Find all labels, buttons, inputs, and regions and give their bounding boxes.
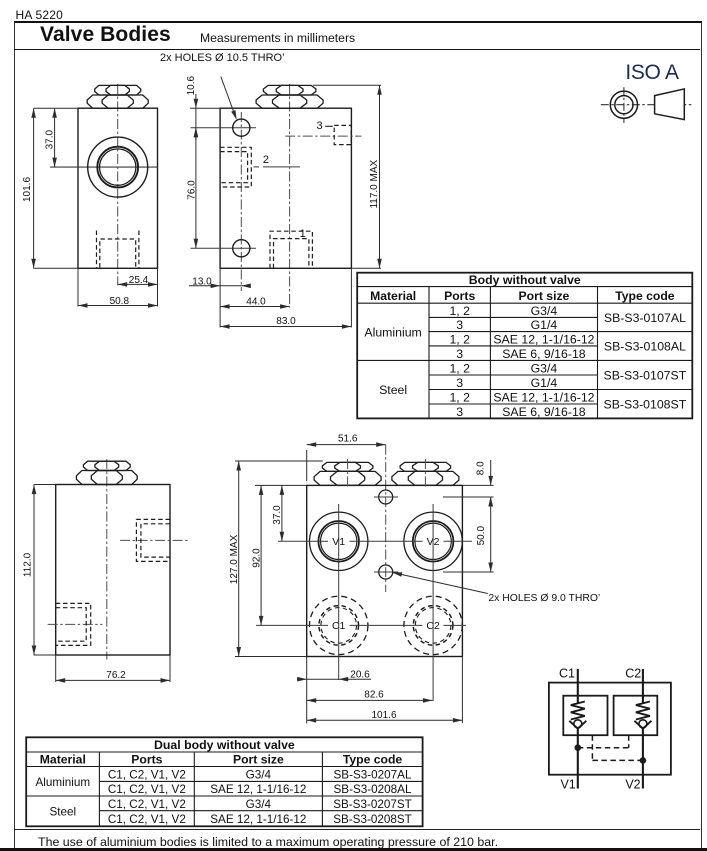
- svg-text:51.6: 51.6: [338, 434, 358, 445]
- svg-text:Body without valve: Body without valve: [469, 273, 581, 287]
- svg-text:25.4: 25.4: [129, 275, 149, 286]
- svg-text:82.6: 82.6: [364, 690, 384, 701]
- svg-text:SB-S3-0207ST: SB-S3-0207ST: [333, 798, 412, 811]
- svg-text:SB-S3-0207AL: SB-S3-0207AL: [334, 768, 412, 781]
- svg-text:1, 2: 1, 2: [449, 361, 470, 375]
- svg-text:10.6: 10.6: [186, 76, 197, 96]
- svg-text:Type code: Type code: [615, 289, 675, 303]
- svg-text:C1: C1: [559, 666, 575, 680]
- svg-text:2: 2: [263, 154, 269, 166]
- svg-text:SB-S3-0107AL: SB-S3-0107AL: [604, 311, 686, 325]
- svg-text:20.6: 20.6: [350, 669, 370, 680]
- svg-text:Dual body without valve: Dual body without valve: [154, 738, 295, 752]
- svg-text:3: 3: [456, 347, 463, 361]
- svg-text:SAE 6, 9/16-18: SAE 6, 9/16-18: [502, 405, 586, 419]
- svg-text:C1, C2, V1, V2: C1, C2, V1, V2: [108, 798, 186, 811]
- svg-text:SAE 12, 1-1/16-12: SAE 12, 1-1/16-12: [210, 813, 306, 826]
- svg-text:Ports: Ports: [444, 289, 475, 303]
- svg-text:C1, C2, V1, V2: C1, C2, V1, V2: [108, 783, 186, 796]
- svg-text:C2: C2: [625, 666, 641, 680]
- svg-text:ISO A: ISO A: [625, 61, 679, 84]
- svg-text:Port size: Port size: [519, 289, 570, 303]
- svg-text:1, 2: 1, 2: [449, 390, 470, 404]
- svg-text:1: 1: [300, 228, 306, 240]
- svg-text:Type code: Type code: [343, 752, 403, 766]
- svg-text:3: 3: [456, 318, 463, 332]
- svg-text:C1, C2, V1, V2: C1, C2, V1, V2: [108, 813, 186, 826]
- svg-text:Steel: Steel: [49, 806, 76, 819]
- svg-text:8.0: 8.0: [476, 461, 487, 475]
- svg-text:Port size: Port size: [233, 752, 284, 766]
- svg-text:V2: V2: [625, 777, 640, 791]
- svg-text:G3/4: G3/4: [246, 768, 272, 781]
- svg-text:G1/4: G1/4: [531, 376, 558, 390]
- svg-text:SB-S3-0108AL: SB-S3-0108AL: [604, 340, 686, 354]
- svg-text:92.0: 92.0: [251, 548, 262, 568]
- svg-text:37.0: 37.0: [44, 130, 55, 150]
- svg-text:SB-S3-0108ST: SB-S3-0108ST: [604, 398, 687, 412]
- svg-text:V1: V1: [560, 777, 575, 791]
- svg-text:Aluminium: Aluminium: [36, 776, 91, 789]
- svg-text:SAE 12, 1-1/16-12: SAE 12, 1-1/16-12: [493, 390, 594, 404]
- svg-text:50.8: 50.8: [110, 296, 130, 307]
- svg-text:101.6: 101.6: [371, 710, 396, 721]
- svg-text:1, 2: 1, 2: [449, 304, 470, 318]
- svg-text:112.0: 112.0: [22, 552, 33, 577]
- svg-text:83.0: 83.0: [276, 316, 296, 327]
- svg-text:50.0: 50.0: [476, 526, 487, 546]
- svg-text:SAE 6, 9/16-18: SAE 6, 9/16-18: [502, 347, 586, 361]
- svg-text:117.0 MAX: 117.0 MAX: [369, 160, 380, 209]
- svg-text:C1, C2, V1, V2: C1, C2, V1, V2: [108, 768, 186, 781]
- svg-text:SB-S3-0107ST: SB-S3-0107ST: [604, 369, 687, 383]
- svg-text:SAE 12, 1-1/16-12: SAE 12, 1-1/16-12: [210, 783, 306, 796]
- svg-text:SB-S3-0208AL: SB-S3-0208AL: [334, 783, 412, 796]
- svg-text:37.0: 37.0: [272, 505, 283, 525]
- svg-text:Steel: Steel: [379, 383, 407, 397]
- svg-text:3: 3: [456, 376, 463, 390]
- svg-text:SB-S3-0208ST: SB-S3-0208ST: [333, 813, 412, 826]
- svg-text:G3/4: G3/4: [531, 304, 558, 318]
- svg-text:Material: Material: [40, 752, 86, 766]
- svg-text:13.0: 13.0: [192, 276, 212, 287]
- svg-text:76.0: 76.0: [186, 180, 197, 200]
- svg-text:44.0: 44.0: [246, 296, 266, 307]
- svg-text:SAE 12, 1-1/16-12: SAE 12, 1-1/16-12: [493, 332, 594, 346]
- svg-text:3: 3: [316, 120, 322, 132]
- svg-text:Material: Material: [370, 289, 416, 303]
- svg-text:Aluminium: Aluminium: [364, 326, 421, 340]
- svg-text:76.2: 76.2: [106, 670, 126, 681]
- svg-text:G3/4: G3/4: [246, 798, 272, 811]
- svg-text:G1/4: G1/4: [531, 318, 558, 332]
- svg-text:Ports: Ports: [131, 752, 162, 766]
- svg-text:101.6: 101.6: [22, 177, 33, 202]
- svg-text:G3/4: G3/4: [531, 361, 558, 375]
- svg-text:2x HOLES Ø 9.0 THRO’: 2x HOLES Ø 9.0 THRO’: [488, 593, 600, 604]
- svg-text:3: 3: [456, 405, 463, 419]
- svg-text:1, 2: 1, 2: [449, 332, 470, 346]
- svg-text:127.0 MAX: 127.0 MAX: [229, 534, 240, 584]
